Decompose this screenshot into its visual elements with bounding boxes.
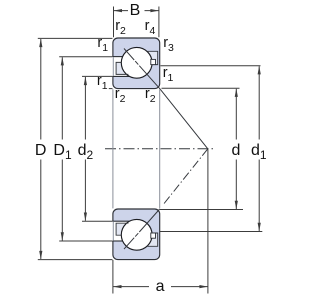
label r2 bottom-right xyxy=(145,86,156,105)
bottom left face gray line across gap xyxy=(112,222,114,241)
label D xyxy=(35,142,47,160)
d extension line bottom xyxy=(160,209,243,211)
bottom cage left xyxy=(116,223,128,235)
a left extension vertical xyxy=(112,260,114,294)
label r3 right xyxy=(163,35,174,54)
B dimension line with arrows xyxy=(114,9,159,12)
label r2 bottom-left xyxy=(115,86,126,105)
d2 dimension line xyxy=(84,77,87,221)
OD extension line top xyxy=(38,37,113,39)
label D1 xyxy=(53,142,71,162)
bearing cross-section top: outer+inner ring body xyxy=(113,38,160,89)
label r4 top xyxy=(145,18,156,37)
label d xyxy=(232,142,241,160)
top contact diagonal (solid) xyxy=(124,49,208,149)
label r2 top xyxy=(115,18,126,37)
top left face gray line across gap xyxy=(112,57,114,76)
axis centerline (dash-dot) xyxy=(105,148,214,150)
top cage left xyxy=(116,62,128,74)
d2 extension line top xyxy=(82,75,113,77)
d dimension line xyxy=(235,88,238,209)
label B xyxy=(130,2,141,20)
label a xyxy=(156,278,165,296)
right face projection line between sections xyxy=(159,89,161,208)
d1 dimension line xyxy=(258,66,261,231)
bearing cross-section bottom: outer+inner ring body xyxy=(113,209,160,260)
top cage right xyxy=(147,51,157,64)
bottom outer ring top-left edge xyxy=(113,240,123,242)
D1 extension line bottom xyxy=(59,240,112,242)
bottom ball xyxy=(121,219,152,250)
d extension line top xyxy=(162,87,240,89)
bottom cage right xyxy=(147,233,157,246)
d1 extension line top xyxy=(161,65,261,67)
label d2 xyxy=(78,142,94,162)
left face projection line between sections xyxy=(112,89,114,208)
label r1 right xyxy=(163,65,174,84)
label d1 xyxy=(251,142,267,162)
B dimension: extension lines xyxy=(114,7,159,38)
label r1 bottom-left xyxy=(97,73,108,92)
a right extension vertical (from apex) xyxy=(207,149,209,293)
top ball xyxy=(121,47,152,78)
top inner ring top-left edge xyxy=(113,75,130,77)
d2 extension line bottom xyxy=(82,220,113,222)
bottom contact diagonal (dash-dot) xyxy=(124,149,208,249)
top cage pocket tints xyxy=(117,63,126,74)
top outer ring bottom-left edge xyxy=(113,56,123,58)
bottom cage pocket tints xyxy=(117,224,126,235)
d1 extension line bottom xyxy=(160,231,262,233)
label r1 top-left xyxy=(97,35,108,54)
top section left gap (white cutout between outer and inner ring) xyxy=(112,57,130,76)
bottom section left gap (white cutout) xyxy=(112,222,130,241)
OD extension line bottom xyxy=(38,259,113,261)
D dimension line xyxy=(39,39,42,260)
D1 extension line top xyxy=(59,56,112,58)
bore stub line top-left xyxy=(109,88,113,90)
bottom inner ring bottom-left edge xyxy=(113,220,130,222)
D1 dimension line xyxy=(61,57,64,241)
a dimension line with arrows xyxy=(113,285,208,288)
